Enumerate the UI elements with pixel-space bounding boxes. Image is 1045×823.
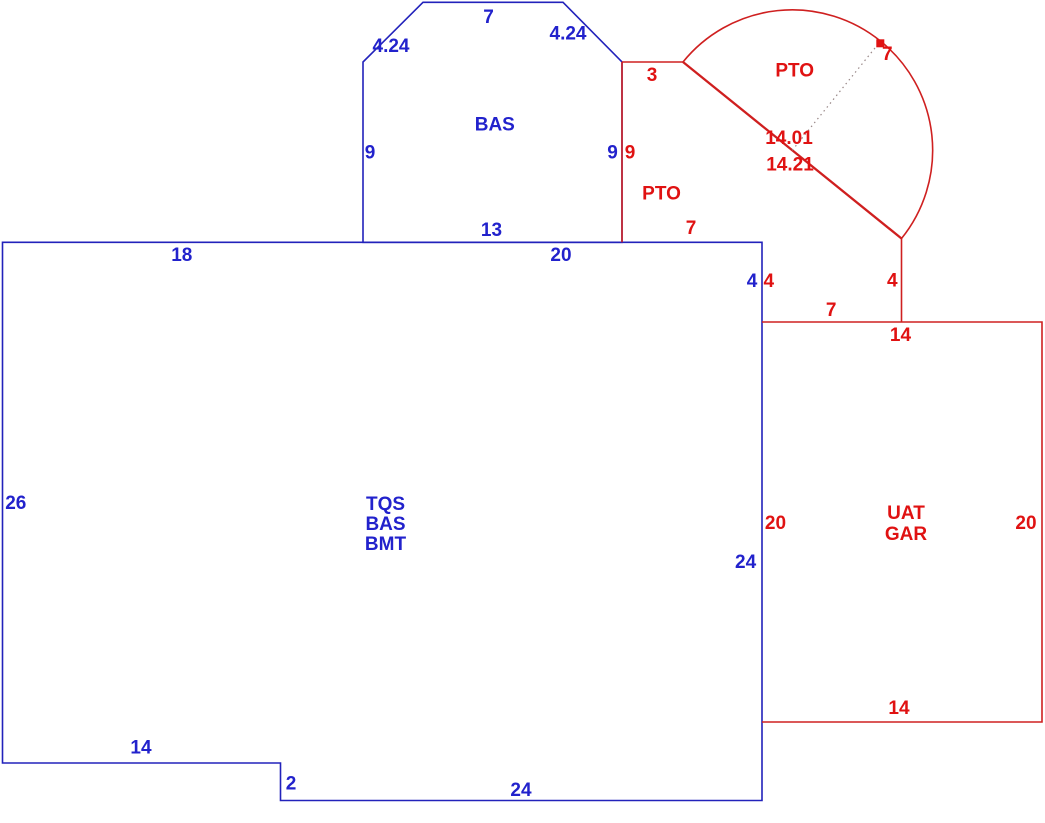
svg-text:7: 7 bbox=[882, 44, 893, 65]
svg-text:20: 20 bbox=[1015, 513, 1036, 534]
svg-text:PTO: PTO bbox=[775, 61, 814, 82]
wire: red PTO top segment "3" bbox=[622, 61, 683, 63]
svg-text:GAR: GAR bbox=[885, 524, 928, 545]
svg-text:9: 9 bbox=[625, 143, 636, 164]
wire: PTO chord (thick red diagonal) bbox=[683, 62, 902, 239]
svg-text:20: 20 bbox=[765, 513, 786, 534]
svg-text:13: 13 bbox=[481, 220, 502, 241]
svg-text:24: 24 bbox=[510, 780, 532, 801]
svg-text:7: 7 bbox=[686, 218, 697, 239]
area outline: BAS (blue polygon, clipped top corners) bbox=[363, 2, 622, 242]
arc: PTO semicircle bbox=[683, 10, 933, 239]
svg-text:14: 14 bbox=[890, 325, 912, 346]
svg-text:4: 4 bbox=[747, 271, 758, 292]
area outline: main floor TQS/BAS/BMT (blue polygon) bbox=[3, 242, 763, 800]
svg-text:7: 7 bbox=[483, 7, 494, 28]
dotted radius line bbox=[792, 41, 880, 150]
svg-text:14: 14 bbox=[888, 698, 910, 719]
svg-text:9: 9 bbox=[365, 143, 376, 164]
svg-text:14: 14 bbox=[130, 738, 152, 759]
svg-text:24: 24 bbox=[735, 552, 757, 573]
svg-text:26: 26 bbox=[5, 493, 26, 514]
svg-text:PTO: PTO bbox=[642, 184, 681, 205]
svg-text:BMT: BMT bbox=[365, 534, 407, 555]
wire: red PTO left vertical (over BAS right edge) bbox=[621, 62, 623, 242]
svg-text:9: 9 bbox=[607, 143, 618, 164]
svg-text:TQS: TQS bbox=[366, 494, 405, 515]
svg-text:2: 2 bbox=[286, 774, 297, 795]
svg-text:4: 4 bbox=[764, 271, 775, 292]
svg-text:14.21: 14.21 bbox=[766, 155, 814, 176]
svg-text:20: 20 bbox=[550, 245, 571, 266]
svg-text:BAS: BAS bbox=[475, 115, 515, 136]
svg-text:UAT: UAT bbox=[887, 503, 925, 524]
svg-text:BAS: BAS bbox=[365, 514, 405, 535]
svg-text:3: 3 bbox=[647, 65, 658, 86]
svg-text:4.24: 4.24 bbox=[373, 36, 410, 57]
marker: small red square on arc peak bbox=[876, 39, 884, 47]
svg-text:14.01: 14.01 bbox=[765, 128, 813, 149]
svg-text:4.24: 4.24 bbox=[550, 24, 587, 45]
wire: red vertical from chord end down to garage top bbox=[901, 239, 903, 323]
svg-text:7: 7 bbox=[826, 300, 837, 321]
area outline: UAT/GAR garage (red, left edge shared with blue) bbox=[762, 322, 1042, 722]
svg-text:18: 18 bbox=[171, 245, 192, 266]
svg-text:4: 4 bbox=[887, 271, 898, 292]
